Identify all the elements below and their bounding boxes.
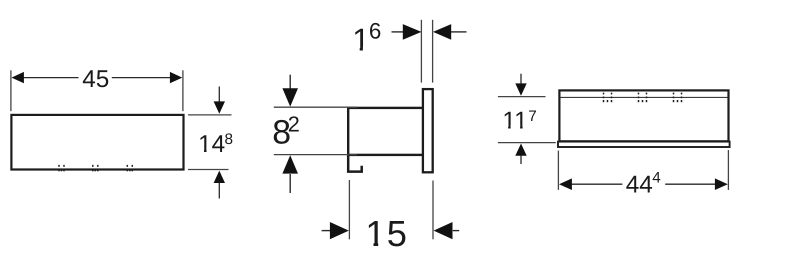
side view shelf body (348, 108, 424, 155)
dim label 1 sup 6 (352, 19, 381, 58)
dim 45 extension line left (10, 70, 12, 111)
dim 15 arrow left (322, 222, 349, 239)
dim 1.6 extension line right (432, 20, 434, 83)
top view shelf body (559, 90, 728, 141)
svg-text:4: 4 (652, 169, 661, 186)
dim 14.8 arrow top (214, 87, 225, 114)
front view clip mark 3 (127, 165, 132, 171)
dim 44.4 line left segment (570, 183, 622, 185)
dim 15 arrow right (434, 222, 460, 239)
dim 1.6 arrow right (433, 24, 467, 40)
top view front edge line (561, 96, 728, 98)
dim 15 extension line right (432, 181, 434, 240)
dim 8.2 extension line top (274, 106, 357, 108)
dim 11.7 extension line top (498, 96, 546, 98)
dim 14.8 extension line bottom (188, 169, 229, 171)
dim 45 arrow right (170, 72, 182, 83)
dim 45 line left segment (23, 77, 79, 79)
dim 44.4 extension line left (557, 151, 559, 190)
svg-text:2: 2 (288, 112, 300, 137)
dim label 8 sup 2 (272, 112, 300, 152)
dim 44.4 arrow left (559, 178, 572, 190)
dim 1.6 extension line left (420, 20, 422, 83)
dim 44.4 extension line right (727, 150, 729, 190)
side view hook (348, 154, 362, 172)
dim 44.4 line right segment (665, 183, 716, 185)
dim 45 extension line right (182, 70, 184, 111)
dim 1.6 arrow left (392, 24, 422, 40)
top view base lip (558, 142, 730, 147)
svg-text:45: 45 (82, 66, 109, 93)
svg-text:8: 8 (225, 131, 234, 148)
front view shelf body (11, 115, 183, 170)
top view clip mark 1 (604, 93, 612, 103)
svg-text:44: 44 (626, 172, 653, 199)
dim 15 extension line left (348, 180, 350, 239)
svg-text:6: 6 (369, 19, 381, 44)
dim 45 arrow left (12, 72, 24, 83)
dim label 44 sup 4 (626, 169, 662, 198)
dim 11.7 arrow top (515, 74, 526, 96)
dim label 11 sup 7 (502, 108, 536, 135)
dim 8.2 arrow bottom (282, 155, 298, 193)
dim label 14 sup 8 (198, 131, 233, 158)
front view clip mark 2 (93, 165, 98, 171)
dim 11.7 arrow bottom (515, 144, 526, 165)
side view wall plate (423, 89, 433, 172)
dim 14.8 arrow bottom (214, 171, 225, 199)
dim 8.2 extension line bottom (274, 154, 357, 156)
svg-text:7: 7 (528, 108, 537, 125)
top view clip mark 2 (639, 93, 647, 103)
dim 45 line right segment (112, 77, 171, 79)
dim 8.2 arrow top (282, 75, 298, 107)
front view clip mark 1 (59, 165, 64, 171)
dim 11.7 extension line bottom (498, 142, 556, 144)
glyph foot masks to mimic footless numeral one (199, 46, 527, 248)
top view clip mark 3 (674, 93, 682, 103)
dim 44.4 arrow right (715, 178, 728, 190)
dim 14.8 extension line top (188, 114, 232, 116)
